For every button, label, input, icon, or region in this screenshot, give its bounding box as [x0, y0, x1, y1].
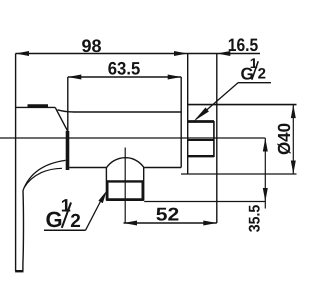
fitting mid line	[188, 139, 214, 141]
ext line 63.5 left	[67, 77, 69, 138]
ext line 98 right / fitting left edge	[187, 54, 189, 175]
outlet centerline	[124, 148, 126, 224]
arrow 52 right	[203, 221, 217, 226]
handle diagonal	[55, 107, 68, 131]
outlet nut thick top	[106, 180, 144, 182]
underline bottom G1/2	[44, 229, 86, 231]
arrow 98 left	[16, 51, 30, 56]
svg-text:2: 2	[258, 66, 266, 83]
leader top G1/2	[196, 83, 238, 119]
fitting lower thick line	[188, 155, 214, 157]
svg-text:16.5: 16.5	[228, 35, 259, 55]
handle inner edge	[22, 191, 25, 271]
35.5 dim line	[264, 138, 266, 209]
fitting top + O40 top ref	[188, 104, 297, 106]
body bottom left segment	[69, 167, 106, 169]
35.5 bottom ref line	[144, 201, 265, 203]
O40 dim line	[292, 105, 294, 174]
outlet nut right side	[143, 168, 145, 201]
arrow 63.5 left	[68, 75, 82, 80]
dim line 98/16.5	[16, 53, 261, 55]
arrow 35.5 up	[263, 138, 268, 152]
arrow 98 right	[174, 51, 188, 56]
leader bottom G1/2	[86, 198, 103, 231]
arrow O40 up	[291, 105, 296, 119]
svg-text:1: 1	[250, 55, 258, 71]
outlet nut left side	[105, 168, 107, 201]
svg-text:2: 2	[70, 211, 81, 232]
ext line 16.5 right / fitting right edge / 52 ext	[216, 54, 218, 224]
ext line 63.5 right / body right edge	[180, 77, 182, 168]
body top	[58, 110, 182, 112]
body bottom right segment	[144, 167, 181, 169]
fitting bottom + O40 bottom ref	[181, 173, 297, 175]
outlet nut thick right	[142, 180, 144, 200]
slash top G1/2	[252, 61, 258, 80]
svg-text:63.5: 63.5	[108, 59, 141, 79]
arrow 52 left	[124, 221, 138, 226]
handle under curve B	[24, 168, 62, 187]
svg-text:52: 52	[156, 204, 180, 225]
svg-text:35.5: 35.5	[247, 204, 264, 232]
svg-text:98: 98	[81, 36, 101, 56]
ext line left (handle left edge + ext)	[15, 54, 17, 272]
handle under curve A	[23, 160, 66, 190]
handle top line	[16, 106, 56, 108]
arrow leader bottom (to nut)	[98, 191, 106, 204]
handle mount bar	[66, 131, 70, 170]
outlet nut thick left	[106, 180, 108, 200]
handle bottom tip	[15, 270, 23, 272]
arrow 16.5	[217, 51, 231, 56]
underline top G1/2	[238, 82, 271, 84]
outlet nut thick bottom	[106, 198, 144, 201]
arrow leader top (to fitting)	[194, 108, 209, 122]
long axis line	[0, 137, 265, 139]
dim line 63.5	[68, 76, 181, 78]
arrow 35.5 down	[263, 188, 268, 202]
arrow 63.5 right	[168, 75, 182, 80]
fitting inner right edge	[213, 121, 215, 157]
fitting thick line	[188, 120, 214, 123]
slash bottom G1/2	[62, 203, 71, 228]
arrow O40 down	[291, 161, 296, 175]
handle grip bump	[28, 104, 49, 107]
svg-text:Ø40: Ø40	[274, 123, 294, 155]
outlet dome arch	[107, 158, 144, 168]
dim line 52	[124, 222, 217, 224]
